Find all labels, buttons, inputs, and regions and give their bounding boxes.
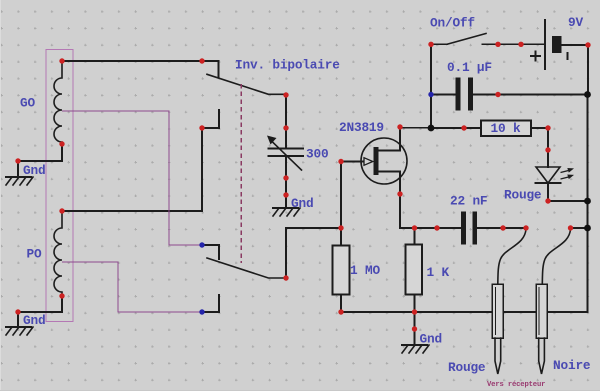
svg-text:2N3819: 2N3819 [339, 120, 384, 135]
pin dot Q1 gate [338, 159, 343, 164]
switch S1 pole A lower contact [202, 110, 219, 128]
wire R1 to LED [531, 128, 548, 150]
wire L1 bottom to ground [18, 144, 62, 177]
inductor L1 GO [54, 61, 62, 144]
junction dot rail LED [584, 198, 591, 205]
wire GO tap to S1b upper contact [62, 111, 202, 245]
junction dot node C [428, 125, 435, 132]
junction dot rail top [584, 91, 591, 98]
pin dot R1 left [461, 125, 466, 130]
svg-text:Vers récepteur: Vers récepteur [487, 381, 545, 389]
node dot C2 left blue [428, 92, 433, 97]
pin dot GND1 [15, 158, 20, 163]
resistor R2 1 MO [333, 228, 350, 312]
pin dot GND2 [15, 309, 20, 314]
pin dot S1a common [283, 92, 288, 97]
junction dot gate node [338, 225, 343, 230]
pin dot L1 top [59, 58, 64, 63]
pin dot S1b common [283, 275, 288, 280]
pin dot C1 bottom [283, 175, 288, 180]
svg-text:PO: PO [27, 247, 42, 262]
junction dot rail probe [584, 225, 591, 232]
svg-text:Gnd: Gnd [420, 332, 442, 347]
pin dot R1 right [545, 125, 550, 130]
switch S2 On/Off [431, 34, 498, 45]
wire S1a lower contact to L2 top [62, 128, 202, 211]
svg-text:GO: GO [20, 95, 35, 110]
svg-text:22 nF: 22 nF [450, 194, 487, 209]
wire PO tap to S1b lower contact [62, 262, 202, 312]
pin dot L1 bottom [59, 141, 64, 146]
resistor R3 1 K [406, 228, 423, 312]
node dot S1b lower blue [199, 309, 204, 314]
capacitor C2 0.1 uF [431, 78, 588, 111]
wire S2 down to node C [430, 44, 432, 128]
pin dot C2 right [495, 92, 500, 97]
pin dot Q1 source [397, 191, 402, 196]
pin dot battery minus [518, 42, 523, 47]
svg-text:On/Off: On/Off [430, 16, 475, 31]
pin dot L2 top [59, 208, 64, 213]
wire L1 top to switch S1a [62, 61, 219, 77]
pin dot R3 top [412, 225, 417, 230]
pin dot battery plus [585, 42, 590, 47]
battery B1 9V [530, 20, 568, 69]
ground GND4 [402, 345, 429, 353]
probe P2 Noire [536, 284, 547, 374]
wire rail to probe row [571, 227, 588, 229]
pin dot S1a upper [199, 58, 204, 63]
wire L2 bottom to ground [18, 296, 62, 327]
wire S1a common to variable capacitor [285, 95, 287, 128]
ferrite rod core [46, 50, 73, 322]
transistor Q1 2N3819 [361, 127, 407, 194]
svg-text:9V: 9V [568, 15, 583, 30]
switch S1 pole B blade [207, 258, 286, 278]
pin dot LED bottom [545, 198, 550, 203]
pin dot lead P2 [568, 225, 573, 230]
pin dot GND4 [412, 326, 417, 331]
pin dot LED top [545, 147, 550, 152]
wire bus to ground GND4 [414, 312, 416, 345]
wire C1 bottom to ground [285, 178, 287, 208]
flexible lead to probe P2 [542, 229, 570, 284]
svg-text:Gnd: Gnd [23, 313, 45, 328]
LED D1 [536, 150, 575, 201]
svg-text:Inv. bipolaire: Inv. bipolaire [235, 58, 340, 73]
svg-text:10 k: 10 k [491, 121, 521, 136]
switch S1 pole B upper contact [202, 245, 219, 259]
pin dot Q1 drain [397, 124, 402, 129]
capacitor C3 22 nF [437, 212, 526, 245]
wire node C to resistor R1 [431, 127, 481, 129]
svg-text:Rouge: Rouge [448, 360, 486, 375]
svg-text:300: 300 [306, 147, 328, 162]
ground GND2 [6, 327, 33, 335]
inductor L2 PO [54, 211, 62, 296]
wire S2 to battery [498, 43, 545, 45]
svg-text:1 K: 1 K [427, 265, 450, 280]
pin dot C1 top [283, 125, 288, 130]
svg-text:Rouge: Rouge [504, 188, 542, 203]
wire Q1 drain to node D [400, 127, 431, 129]
flexible lead to probe P1 [498, 229, 526, 284]
svg-text:Gnd: Gnd [291, 196, 313, 211]
pin dot S1a lower [199, 125, 204, 130]
svg-text:1 MO: 1 MO [350, 263, 380, 278]
wire battery plus to rail [562, 45, 589, 95]
ground GND3 [273, 208, 300, 216]
pin dot S2 right [495, 42, 500, 47]
variable capacitor C1 300 [267, 128, 303, 178]
ground bus [341, 311, 588, 313]
wire gate node to JFET gate [341, 162, 364, 229]
pin dot C3 left [434, 225, 439, 230]
wire S1b common to gate node [286, 228, 341, 278]
wire Q1 source to node S [400, 194, 437, 228]
switch S1 pole B lower contact [202, 295, 219, 312]
svg-text:Gnd: Gnd [23, 163, 45, 178]
pin dot lead P1 [523, 225, 528, 230]
pin dot R3 bottom [412, 309, 417, 314]
probe P1 Rouge [492, 284, 503, 374]
ground GND1 [6, 177, 33, 185]
node dot S1b upper blue [199, 242, 204, 247]
resistor R1 10 k [481, 121, 531, 137]
pin dot L2 bottom [59, 293, 64, 298]
switch S1 mechanical link [240, 84, 242, 263]
negative rail [587, 95, 589, 313]
pin dot R2 bottom [338, 309, 343, 314]
pin dot C3 right [500, 225, 505, 230]
svg-text:Noire: Noire [553, 358, 591, 373]
pin dot S2 left [428, 42, 433, 47]
svg-text:0.1 µF: 0.1 µF [447, 60, 492, 75]
switch S1 pole A blade [207, 74, 286, 94]
pin dot GND3 [283, 192, 288, 197]
wire LED cathode to rail [548, 200, 588, 202]
